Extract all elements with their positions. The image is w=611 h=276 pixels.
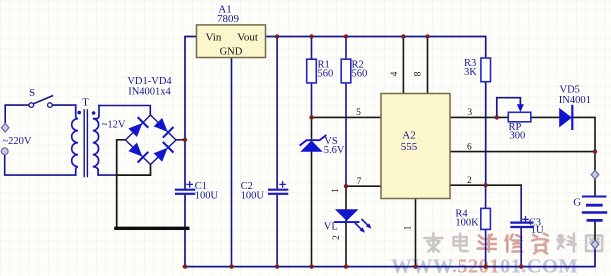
junction dot pin6-VD5	[593, 149, 597, 153]
svg-text:7809: 7809	[217, 13, 240, 25]
svg-text:1: 1	[404, 225, 414, 230]
wire C2 column	[276, 37, 278, 267]
svg-text:VD5: VD5	[560, 85, 580, 96]
wire pin1 stub	[415, 199, 417, 267]
watermark char wei	[478, 235, 496, 252]
potentiometer RP wiper arrow	[517, 104, 524, 112]
svg-text:100U: 100U	[195, 190, 219, 201]
timer U A2 555 box	[381, 94, 450, 199]
wire node Vout: top bus to R3	[266, 37, 486, 186]
wire LED VL column	[345, 186, 347, 266]
junction dot pin5-zener	[309, 115, 313, 119]
capacitor C1 plates	[176, 190, 194, 194]
wire bridge right corner to Vin	[176, 139, 185, 141]
capacitor C2 plus	[280, 182, 285, 187]
transformer T core	[84, 110, 87, 177]
watermark char wang	[586, 236, 602, 252]
svg-text:S: S	[29, 87, 35, 99]
switch S	[29, 103, 34, 108]
svg-text:VD1-VD4: VD1-VD4	[127, 76, 172, 87]
wire AC port1 to switch	[5, 105, 76, 123]
watermark char xiu	[506, 235, 523, 252]
junction dot pin7-LED	[344, 184, 348, 188]
capacitor C3 plates	[511, 223, 532, 227]
svg-text:IN4001x4: IN4001x4	[128, 87, 171, 98]
wire battery G column	[594, 152, 596, 241]
resistor R1	[307, 59, 317, 83]
wire pin8 stub	[427, 37, 429, 94]
LED VL arrow 1	[356, 224, 363, 231]
svg-text:Vout: Vout	[237, 32, 258, 44]
junction dot pin3-RP	[495, 115, 499, 119]
wire pin7	[346, 185, 381, 187]
watermark char zi	[532, 234, 548, 254]
wire secondary bottom	[98, 170, 117, 176]
wire zener VS column	[311, 117, 313, 266]
resistor R3	[481, 58, 491, 82]
diode VD3 lower-left	[128, 142, 147, 161]
svg-text:6: 6	[467, 143, 472, 153]
svg-text:GND: GND	[220, 47, 243, 58]
svg-text:1U: 1U	[531, 225, 544, 236]
junction dot bridge-Vin	[183, 138, 187, 142]
diode VD1 upper-left	[128, 118, 147, 137]
svg-text:Vin: Vin	[206, 32, 222, 44]
watermark char dian	[454, 234, 468, 252]
resistor R2	[341, 59, 351, 83]
wire C3 column	[520, 185, 522, 266]
wire AC port2 to transformer primary bottom	[5, 155, 76, 176]
svg-text:4: 4	[390, 71, 400, 76]
svg-text:T: T	[82, 96, 89, 108]
svg-text:VL: VL	[324, 221, 338, 232]
wire R4 column	[485, 185, 487, 266]
LED VL bar	[335, 221, 359, 223]
zener VS triangle	[300, 141, 322, 152]
junction dot pin2-R4	[483, 183, 487, 187]
wire secondary top to bridge	[99, 106, 150, 115]
port ~220V upper	[2, 123, 9, 132]
svg-text:8: 8	[414, 71, 424, 76]
resistor R4	[481, 208, 491, 229]
svg-text:2: 2	[332, 235, 342, 240]
wire bottom bus	[184, 248, 596, 267]
svg-text:560: 560	[318, 69, 334, 80]
bridge diamond outline	[126, 115, 177, 165]
potentiometer RP body	[508, 112, 531, 122]
wire pin2	[450, 184, 521, 186]
wire bridge bottom corner	[117, 165, 151, 176]
capacitor C2 plates	[269, 190, 287, 194]
wire thick ground link	[116, 227, 188, 230]
svg-text:3K: 3K	[464, 67, 477, 78]
battery G plates	[583, 196, 606, 198]
diode VD5 bar	[571, 106, 573, 129]
wire pin5	[312, 116, 382, 118]
capacitor C3 plus	[523, 217, 528, 222]
svg-text:560: 560	[352, 69, 368, 80]
potentiometer RP wiper bracket	[497, 98, 521, 118]
junction dots top bus	[275, 34, 279, 38]
port ~220V lower	[1, 148, 8, 155]
svg-text:100U: 100U	[241, 191, 265, 202]
transformer polarity dot right	[92, 111, 96, 115]
wire pin4 stub	[402, 37, 404, 94]
WATERMARK	[391, 234, 602, 276]
diode VD5 triangle	[559, 108, 572, 128]
wire R1 column	[311, 37, 313, 118]
svg-text:2: 2	[467, 176, 472, 186]
watermark char liao	[557, 234, 576, 252]
svg-text:~220V: ~220V	[3, 136, 32, 147]
zener VS bar	[300, 136, 325, 145]
watermark char jia	[424, 234, 442, 252]
transformer T secondary winding	[93, 106, 99, 176]
svg-text:300: 300	[510, 130, 526, 141]
svg-text:555: 555	[401, 141, 418, 153]
wire R2 column	[345, 37, 347, 187]
svg-text:5.6V: 5.6V	[324, 145, 345, 156]
transformer polarity dot left	[77, 111, 81, 115]
svg-text:~12V: ~12V	[102, 119, 126, 130]
port battery bottom	[591, 240, 599, 249]
svg-text:G: G	[573, 196, 581, 208]
svg-text:7: 7	[357, 177, 362, 187]
diode VD4 lower-right	[153, 143, 172, 162]
svg-text:3: 3	[467, 108, 472, 118]
junction dots bottom bus	[183, 264, 187, 268]
LED VL triangle	[335, 209, 359, 221]
capacitor C1 plus	[187, 182, 192, 187]
wire node Vin: A1 input, bridge +, C1 column	[185, 37, 197, 267]
svg-text:1: 1	[331, 188, 341, 193]
wire pin6	[450, 151, 595, 153]
wire pin3 to RP and VD5	[450, 117, 595, 151]
svg-text:IN4001: IN4001	[559, 95, 591, 106]
transformer T primary winding	[72, 105, 78, 175]
diode VD2 upper-right	[153, 118, 172, 137]
wire bridge left corner to ground drop	[117, 140, 126, 229]
regulator U A1 7809 box	[197, 25, 266, 58]
svg-text:5: 5	[356, 108, 361, 118]
LED VL arrow 2	[362, 220, 369, 227]
port battery top	[591, 170, 599, 179]
svg-text:100K: 100K	[455, 218, 479, 229]
wire A1 GND column	[231, 58, 233, 267]
